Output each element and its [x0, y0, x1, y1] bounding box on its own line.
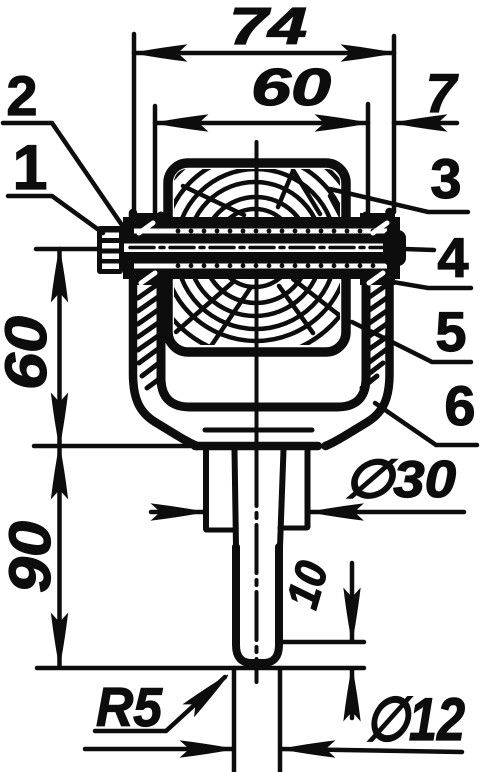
- dim 10: [350, 563, 355, 640]
- svg-text:74: 74: [229, 0, 307, 56]
- nut: [383, 230, 406, 266]
- handle inner (tenon) lines: [235, 450, 237, 547]
- R5 leader: [95, 677, 225, 731]
- label 4 leader: [381, 280, 471, 288]
- ext line at bolt axis: [36, 247, 98, 252]
- white slashes in wall bands: [139, 223, 387, 283]
- ext line tip top (10 dim): [281, 640, 364, 645]
- shoulder lines: [206, 528, 233, 533]
- vertical centerline: [255, 142, 259, 458]
- label 2 leader: [3, 123, 126, 231]
- svg-text:7: 7: [426, 62, 459, 124]
- long bottom ext line: [37, 666, 364, 671]
- svg-text:1: 1: [12, 133, 47, 203]
- yoke hatching left wall: [138, 284, 162, 388]
- yoke outer contour right: [326, 212, 390, 446]
- svg-text:2: 2: [6, 64, 37, 127]
- svg-text:90: 90: [0, 521, 63, 593]
- dim 60 line: [155, 121, 368, 126]
- thread dots lower: [176, 263, 376, 268]
- handle outer lines: [203, 450, 209, 529]
- bolt tip / leader 4: [404, 249, 434, 250]
- bolt thread band lower: [134, 264, 387, 269]
- bolt center band: [124, 244, 387, 253]
- dim O12: [85, 747, 232, 752]
- bolt shank solid: [123, 217, 400, 279]
- yoke bottom mid edge line: [205, 428, 312, 433]
- bolt axis dash-dot: [130, 246, 385, 250]
- svg-text:60: 60: [0, 316, 59, 390]
- tenon with rounded tip: [236, 547, 279, 663]
- yoke outer contour left: [133, 213, 197, 446]
- svg-text:∅12: ∅12: [365, 686, 465, 753]
- dim 74 line: [134, 51, 394, 56]
- bolt head: [97, 226, 123, 274]
- yoke left wall solid zone: [129, 213, 166, 285]
- label 5 leader: [352, 322, 471, 362]
- wood grain radial cracks: [176, 170, 347, 349]
- label 1 leader: [8, 196, 103, 233]
- svg-text:∅30: ∅30: [344, 451, 456, 509]
- svg-text:4: 4: [437, 226, 468, 289]
- thread dots upper: [176, 229, 376, 234]
- label 6 leader: [375, 403, 477, 445]
- vertical dim line 60/90: [57, 249, 62, 666]
- dim 60 ext lines: [153, 106, 158, 218]
- svg-text:60: 60: [251, 59, 331, 117]
- ext line at yoke bottom: [34, 444, 192, 449]
- wood grain rings: [131, 124, 381, 374]
- svg-text:R5: R5: [96, 676, 163, 738]
- svg-text:6: 6: [444, 374, 475, 437]
- dim O12 ext lines: [232, 668, 237, 772]
- yoke right wall solid zone: [360, 213, 395, 285]
- wood block (wooden insert) outline: [168, 163, 346, 352]
- svg-text:5: 5: [435, 300, 466, 363]
- svg-text:3: 3: [430, 147, 461, 210]
- dim O30: [151, 510, 203, 515]
- bolt thread band upper: [134, 229, 387, 234]
- dim 74: extension lines: [132, 34, 137, 214]
- funnel bottom edge: [195, 442, 318, 451]
- yoke inner contour: [161, 216, 366, 407]
- dim 7 arrow: [394, 121, 457, 126]
- yoke hatching right wall: [362, 284, 388, 388]
- label 3 leader: [330, 189, 468, 212]
